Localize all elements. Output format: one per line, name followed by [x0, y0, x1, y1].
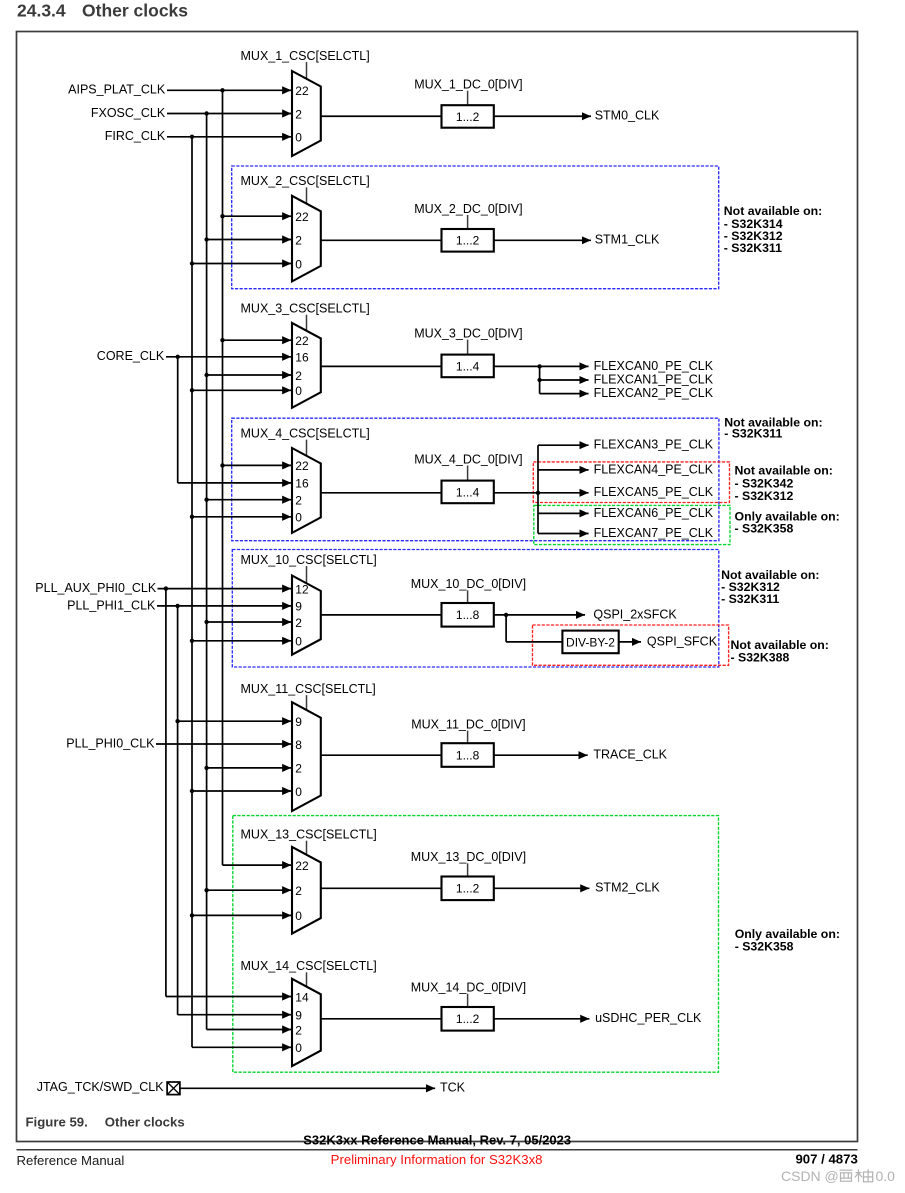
svg-text:MUX_11_DC_0[DIV]: MUX_11_DC_0[DIV] [411, 717, 525, 731]
junction FXOSC_CLK bus tap [204, 111, 208, 115]
svg-text:22: 22 [295, 334, 309, 348]
wire MUX_4 output to divider [321, 492, 442, 494]
svg-text:TCK: TCK [440, 1081, 466, 1095]
svg-text:PLL_AUX_PHI0_CLK: PLL_AUX_PHI0_CLK [35, 581, 157, 595]
svg-text:AIPS_PLAT_CLK: AIPS_PLAT_CLK [68, 83, 166, 97]
note FLEXCAN6/7 availability [735, 510, 840, 536]
wire JTAG_TCK to TCK [180, 1087, 435, 1089]
svg-text:PLL_PHI0_CLK: PLL_PHI0_CLK [66, 736, 155, 750]
wire CORE_CLK bus vertical [177, 357, 179, 483]
svg-text:9: 9 [295, 600, 302, 614]
svg-text:2: 2 [295, 494, 302, 508]
svg-text:S32K3xx Reference Manual, Rev.: S32K3xx Reference Manual, Rev. 7, 05/202… [303, 1133, 571, 1148]
wire FXOSC bus to MUX_13 input 2 [207, 889, 292, 891]
wire MUX_11 TRACE_CLK output [494, 754, 588, 756]
svg-text:Reference Manual: Reference Manual [17, 1153, 125, 1168]
wire to FLEXCAN7_PE_CLK [538, 533, 589, 535]
wire QSPI branch vertical [505, 615, 507, 642]
svg-text:1...8: 1...8 [456, 748, 480, 762]
svg-text:MUX_10_CSC[SELCTL]: MUX_10_CSC[SELCTL] [241, 553, 377, 567]
svg-text:FLEXCAN0_PE_CLK: FLEXCAN0_PE_CLK [594, 359, 714, 373]
junction AIPS bus at y=465.4 [220, 463, 224, 467]
divider MUX_11_DC_0 box value 1...8 [442, 743, 494, 767]
svg-text:0: 0 [295, 1041, 302, 1055]
junction FIRC bus at y=640.8 [190, 639, 194, 643]
svg-text:0: 0 [295, 635, 302, 649]
watermark CSDN @西柚0.0 [781, 1168, 895, 1184]
wire AIPS bus to MUX_2 input 22 [223, 215, 292, 217]
junction FIRC bus at y=791.0 [190, 789, 194, 793]
svg-text:1...2: 1...2 [456, 882, 480, 896]
wire MUX_3_DC_0 label stub [467, 340, 469, 355]
svg-text:2: 2 [295, 616, 302, 630]
wire QSPI branch to DIV-BY-2 [506, 641, 562, 643]
svg-text:1...2: 1...2 [456, 110, 480, 124]
svg-text:0: 0 [295, 785, 302, 799]
svg-text:2: 2 [295, 762, 302, 776]
mux MUX_10 body [292, 576, 321, 655]
svg-text:MUX_10_DC_0[DIV]: MUX_10_DC_0[DIV] [411, 577, 526, 591]
svg-text:9: 9 [295, 1009, 302, 1023]
dashed blue box around MUX_2 section [232, 166, 719, 289]
svg-text:12: 12 [295, 582, 309, 596]
wire MUX_3 select stub [306, 315, 308, 331]
wire MUX_1 output to divider [321, 115, 442, 117]
svg-text:Not available on:: Not available on: [735, 463, 833, 477]
svg-text:22: 22 [295, 84, 309, 98]
svg-text:uSDHC_PER_CLK: uSDHC_PER_CLK [595, 1011, 702, 1025]
wire MUX_10 select stub [306, 566, 308, 584]
mux MUX_1 body [292, 71, 321, 156]
svg-text:22: 22 [295, 210, 309, 224]
svg-text:2: 2 [295, 233, 302, 247]
svg-text:STM0_CLK: STM0_CLK [595, 109, 660, 123]
wire FLEXCAN branch vertical MUX_4 [537, 445, 539, 533]
wire MUX_3 output to divider [321, 365, 442, 367]
wire FXOSC bus to MUX_3 input 2 [207, 374, 292, 376]
svg-text:MUX_1_CSC[SELCTL]: MUX_1_CSC[SELCTL] [241, 49, 370, 63]
junction FLEXCAN1 branch [537, 378, 541, 382]
wire FXOSC bus to MUX_10 input 2 [207, 621, 292, 623]
mux MUX_11 body [292, 702, 321, 811]
mux MUX_14 body [292, 979, 321, 1066]
svg-text:2: 2 [295, 884, 302, 898]
svg-text:FLEXCAN1_PE_CLK: FLEXCAN1_PE_CLK [594, 372, 714, 386]
svg-text:MUX_3_CSC[SELCTL]: MUX_3_CSC[SELCTL] [241, 302, 370, 316]
wire AIPS bus to MUX_3 input 22 [223, 339, 292, 341]
wire FIRC bus to MUX_2 input 0 [192, 263, 291, 265]
svg-text:FLEXCAN2_PE_CLK: FLEXCAN2_PE_CLK [594, 386, 714, 400]
wire FXOSC bus to MUX_14 input 2 [207, 1029, 292, 1031]
wire MUX_10 output to divider [321, 614, 442, 616]
svg-text:FIRC_CLK: FIRC_CLK [105, 129, 166, 143]
svg-text:JTAG_TCK/SWD_CLK: JTAG_TCK/SWD_CLK [37, 1080, 165, 1094]
svg-text:1...2: 1...2 [456, 1012, 480, 1026]
wire MUX_4 divider output to FLEXCAN5_PE_CLK [494, 492, 589, 494]
wire FIRC_CLK bus vertical [191, 137, 193, 1048]
svg-text:24.3.4: 24.3.4 [17, 1, 66, 21]
footer separator line [17, 1149, 858, 1151]
wire FIRC bus to MUX_11 input 0 [192, 790, 291, 792]
wire FXOSC bus to MUX_4 input 2 [207, 499, 292, 501]
divider MUX_1_DC_0 box value 1...2 [442, 105, 494, 128]
note MUX_13/14 availability [735, 927, 840, 954]
mux MUX_4 body [292, 448, 321, 533]
junction FLEXCAN4-7 branch at (538,492.8) [536, 491, 540, 495]
wire FIRC bus to MUX_13 input 0 [192, 914, 291, 916]
wire AIPS_PLAT_CLK bus vertical [222, 90, 224, 865]
svg-text:Other clocks: Other clocks [82, 1, 188, 21]
svg-text:MUX_14_CSC[SELCTL]: MUX_14_CSC[SELCTL] [241, 959, 377, 973]
svg-text:16: 16 [295, 477, 309, 491]
svg-text:MUX_2_DC_0[DIV]: MUX_2_DC_0[DIV] [414, 202, 522, 216]
wire MUX_11 select stub [306, 695, 308, 710]
wire FLEXCAN branch vertical MUX_3 [539, 366, 541, 393]
junction AIPS bus at y=216.2 [220, 214, 224, 218]
svg-text:- S32K358: - S32K358 [735, 522, 794, 536]
wire MUX_13 STM2_CLK output [494, 887, 590, 889]
wire PLL_AUX bus to MUX_14 input 14 [166, 996, 291, 998]
wire MUX_14_DC_0 label stub [467, 994, 469, 1007]
svg-text:0: 0 [295, 257, 302, 271]
dashed red box around FLEXCAN4/5 outputs [533, 462, 729, 503]
svg-text:16: 16 [295, 351, 309, 365]
note MUX_10 availability [721, 568, 819, 606]
junction AIPS bus at y=340.2 [220, 338, 224, 342]
dashed green box around MUX_13/MUX_14 section [233, 816, 719, 1073]
wire PLL_AUX_PHI0_CLK to MUX_10 input 12 [158, 588, 292, 590]
junction FXOSC bus at y=767.9 [204, 766, 208, 770]
wire MUX_10 divider output to QSPI_2xSFCK [494, 614, 585, 616]
wire AIPS bus to MUX_13 input 22 [223, 864, 292, 866]
note FLEXCAN4/5 availability [735, 463, 833, 503]
svg-text:QSPI_SFCK: QSPI_SFCK [647, 634, 718, 648]
wire MUX_4_DC_0 label stub [467, 466, 469, 481]
svg-text:QSPI_2xSFCK: QSPI_2xSFCK [593, 607, 677, 621]
junction FXOSC bus at y=375.0 [204, 373, 208, 377]
wire PLL_PHI1 bus to MUX_11 input 9 [178, 720, 292, 722]
wire to FLEXCAN3_PE_CLK [538, 444, 589, 446]
junction PLL_PHI1 bus at y=721.2 [175, 719, 179, 723]
svg-text:MUX_3_DC_0[DIV]: MUX_3_DC_0[DIV] [414, 326, 522, 340]
divider MUX_2_DC_0 box value 1...2 [442, 229, 494, 252]
figure caption [26, 1114, 185, 1129]
svg-text:STM2_CLK: STM2_CLK [595, 881, 660, 895]
svg-text:FLEXCAN4_PE_CLK: FLEXCAN4_PE_CLK [594, 462, 714, 476]
wire PLL_PHI1_CLK to MUX_10 input 9 [157, 605, 291, 607]
svg-text:MUX_13_CSC[SELCTL]: MUX_13_CSC[SELCTL] [241, 828, 377, 842]
svg-text:0: 0 [295, 384, 302, 398]
junction FXOSC bus at y=239.5 [204, 237, 208, 241]
note MUX_4 availability [724, 416, 822, 441]
svg-text:- S32K312: - S32K312 [735, 489, 794, 503]
junction AIPS_PLAT_CLK bus tap [220, 88, 224, 92]
wire FXOSC_CLK to MUX_1 input 2 [167, 113, 291, 115]
junction FIRC bus at y=390.3 [190, 388, 194, 392]
wire to FLEXCAN4_PE_CLK [538, 469, 589, 471]
wire FXOSC bus to MUX_11 input 2 [207, 767, 292, 769]
svg-text:Preliminary Information for S3: Preliminary Information for S32K3x8 [331, 1152, 543, 1167]
wire MUX_11_DC_0 label stub [467, 731, 469, 744]
svg-text:2: 2 [295, 107, 302, 121]
wire MUX_11 output to divider [321, 754, 442, 756]
svg-text:FLEXCAN7_PE_CLK: FLEXCAN7_PE_CLK [594, 526, 714, 540]
wire MUX_2 select stub [306, 187, 308, 204]
wire FIRC_CLK to MUX_1 input 0 [167, 136, 291, 138]
section heading 24.3.4 Other clocks [17, 1, 188, 21]
wire MUX_1 select stub [306, 62, 308, 79]
junction PLL_PHI1_CLK bus tap [175, 604, 179, 608]
svg-text:CORE_CLK: CORE_CLK [97, 349, 165, 363]
svg-text:- S32K311: - S32K311 [724, 241, 782, 255]
junction FIRC bus at y=516.8 [190, 515, 194, 519]
svg-text:- S32K311: - S32K311 [721, 592, 779, 606]
svg-text:MUX_14_DC_0[DIV]: MUX_14_DC_0[DIV] [411, 981, 526, 995]
wire DIV-BY-2 to QSPI_SFCK [619, 641, 641, 643]
svg-text:- S32K358: - S32K358 [735, 940, 794, 954]
wire FIRC bus to MUX_4 input 0 [192, 516, 291, 518]
svg-text:0.0: 0.0 [876, 1168, 896, 1184]
wire to FLEXCAN2_PE_CLK [540, 393, 589, 395]
wire MUX_14 output to divider [321, 1018, 442, 1020]
svg-text:FXOSC_CLK: FXOSC_CLK [91, 106, 166, 120]
svg-text:FLEXCAN3_PE_CLK: FLEXCAN3_PE_CLK [594, 438, 714, 452]
divider DIV-BY-2 box [562, 631, 618, 654]
wire MUX_1 STM0_CLK output [494, 115, 591, 117]
svg-text:14: 14 [295, 990, 309, 1004]
wire PLL_PHI1 bus to MUX_14 input 9 [178, 1014, 292, 1016]
divider MUX_13_DC_0 box value 1...2 [442, 877, 494, 901]
wire MUX_13 output to divider [321, 887, 442, 889]
wire FXOSC bus to MUX_2 input 2 [207, 239, 292, 241]
wire MUX_2 STM1_CLK output [494, 239, 591, 241]
svg-text:- S32K388: - S32K388 [731, 650, 790, 664]
svg-text:22: 22 [295, 459, 309, 473]
dashed blue box around MUX_4 section [232, 418, 719, 541]
svg-text:MUX_2_CSC[SELCTL]: MUX_2_CSC[SELCTL] [241, 174, 370, 188]
wire PLL_AUX_PHI0_CLK bus vertical [165, 589, 167, 997]
svg-text:Not available on:: Not available on: [724, 204, 822, 218]
note MUX_2 availability [724, 204, 822, 255]
svg-text:FLEXCAN6_PE_CLK: FLEXCAN6_PE_CLK [594, 506, 714, 520]
junction PLL_AUX_PHI0_CLK bus tap [164, 586, 168, 590]
svg-text:PLL_PHI1_CLK: PLL_PHI1_CLK [67, 598, 156, 612]
junction CORE_CLK bus tap [176, 355, 180, 359]
svg-text:FLEXCAN5_PE_CLK: FLEXCAN5_PE_CLK [594, 485, 714, 499]
junction FLEXCAN branch at (539.6,366.4) [537, 364, 541, 368]
mux MUX_13 body [292, 847, 321, 934]
wire MUX_14 uSDHC_PER_CLK output [494, 1018, 590, 1020]
svg-text:2: 2 [295, 1023, 302, 1037]
wire PLL_PHI1_CLK bus vertical [177, 606, 179, 1015]
svg-text:0: 0 [295, 131, 302, 145]
svg-text:- S32K311: - S32K311 [724, 427, 782, 441]
wire FIRC bus to MUX_10 input 0 [192, 640, 291, 642]
svg-text:2: 2 [295, 369, 302, 383]
wire FXOSC_CLK bus vertical [206, 114, 208, 1030]
wire CORE_CLK to MUX_3 input 16 [166, 356, 291, 358]
svg-text:22: 22 [295, 859, 309, 873]
svg-text:0: 0 [295, 511, 302, 525]
divider MUX_4_DC_0 box value 1...4 [442, 481, 494, 504]
wire FIRC bus to MUX_3 input 0 [192, 389, 291, 391]
svg-text:MUX_4_DC_0[DIV]: MUX_4_DC_0[DIV] [414, 452, 522, 466]
svg-text:1...4: 1...4 [456, 359, 480, 373]
svg-text:9: 9 [295, 715, 302, 729]
svg-text:Figure 59.: Figure 59. [26, 1114, 88, 1129]
wire CORE bus to MUX_4 input 16 [178, 482, 292, 484]
svg-text:TRACE_CLK: TRACE_CLK [593, 748, 667, 762]
junction FIRC bus at y=263.5 [190, 261, 194, 265]
svg-text:Other clocks: Other clocks [105, 1114, 185, 1129]
wire to FLEXCAN6_PE_CLK [538, 512, 589, 514]
svg-text:STM1_CLK: STM1_CLK [595, 233, 660, 247]
junction FIRC bus at y=915.4 [190, 913, 194, 917]
junction FXOSC bus at y=890.2 [204, 888, 208, 892]
svg-text:907 / 4873: 907 / 4873 [795, 1151, 857, 1166]
svg-text:0: 0 [295, 909, 302, 923]
wire PLL_PHI0_CLK to MUX_11 input 8 [156, 743, 291, 745]
note QSPI_SFCK availability [731, 638, 829, 664]
wire MUX_14 select stub [306, 972, 308, 987]
wire MUX_4 select stub [306, 440, 308, 457]
svg-text:CSDN @: CSDN @ [781, 1168, 839, 1184]
pad JTAG_TCK/SWD_CLK bond-pad symbol [167, 1082, 180, 1095]
divider MUX_10_DC_0 box value 1...8 [442, 603, 494, 627]
svg-text:MUX_1_DC_0[DIV]: MUX_1_DC_0[DIV] [414, 78, 522, 92]
svg-text:MUX_13_DC_0[DIV]: MUX_13_DC_0[DIV] [411, 850, 526, 864]
svg-text:1...8: 1...8 [456, 608, 480, 622]
svg-text:MUX_4_CSC[SELCTL]: MUX_4_CSC[SELCTL] [241, 426, 370, 440]
svg-text:MUX_11_CSC[SELCTL]: MUX_11_CSC[SELCTL] [241, 682, 376, 696]
wire MUX_2_DC_0 label stub [467, 215, 469, 229]
wire FIRC bus to MUX_14 input 0 [192, 1046, 291, 1048]
wire MUX_1_DC_0 label stub [467, 91, 469, 106]
junction QSPI branch at (506.1,614.9) [504, 613, 508, 617]
junction FXOSC bus at y=499.7 [204, 498, 208, 502]
svg-text:1...2: 1...2 [456, 234, 480, 248]
dashed blue box around MUX_10 section [232, 550, 719, 668]
wire AIPS_PLAT_CLK to MUX_1 input 22 [167, 89, 291, 91]
junction FXOSC bus at y=622.0 [204, 620, 208, 624]
wire MUX_13 select stub [306, 841, 308, 855]
svg-text:DIV-BY-2: DIV-BY-2 [566, 635, 615, 649]
wire to FLEXCAN1_PE_CLK [540, 379, 589, 381]
wire AIPS bus to MUX_4 input 22 [223, 464, 292, 466]
svg-text:1...4: 1...4 [456, 485, 480, 499]
svg-text:8: 8 [295, 738, 302, 752]
junction FIRC_CLK bus tap [190, 135, 194, 139]
wire MUX_10_DC_0 label stub [467, 590, 469, 603]
mux MUX_2 body [292, 196, 321, 282]
mux MUX_3 body [292, 323, 321, 408]
wire MUX_13_DC_0 label stub [467, 863, 469, 876]
dashed red box around QSPI_SFCK divider [533, 625, 729, 665]
divider MUX_14_DC_0 box value 1...2 [442, 1007, 494, 1031]
dashed green box around FLEXCAN6/7 outputs [534, 505, 730, 544]
wire MUX_2 output to divider [321, 239, 442, 241]
divider MUX_3_DC_0 box value 1...4 [442, 355, 494, 378]
wire MUX_3 divider output to FLEXCAN0_PE_CLK [494, 365, 589, 367]
